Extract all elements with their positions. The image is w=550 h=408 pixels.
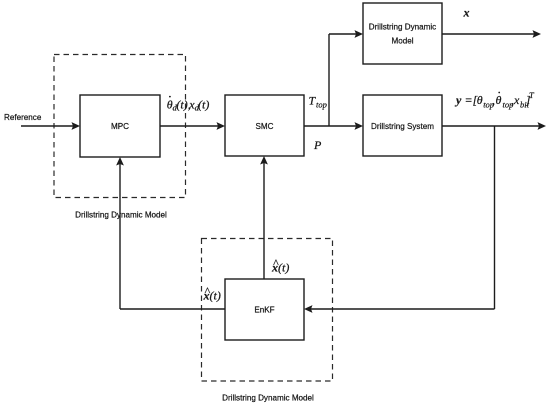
svg-text:Reference: Reference: [4, 113, 42, 122]
svg-text:Drillstring Dynamic: Drillstring Dynamic: [369, 23, 436, 32]
svg-text:θ: θ: [496, 93, 502, 107]
svg-text:(t): (t): [198, 97, 209, 111]
wire: Drillstring System output y: [442, 125, 540, 127]
wire: branch to Drillstring Dynamic Model: [329, 33, 357, 35]
wire: branch up from SMC output: [328, 34, 330, 126]
svg-text:=: =: [465, 93, 473, 107]
wire: feedback up to MPC bottom: [119, 163, 121, 309]
wire: EnKF top output to SMC: [263, 162, 265, 279]
block EnKF: [225, 279, 304, 340]
svg-text:x: x: [463, 6, 470, 20]
label: xhat(t) left of EnKF: [203, 284, 221, 302]
svg-text:Drillstring Dynamic Model: Drillstring Dynamic Model: [75, 211, 167, 220]
svg-text:P: P: [313, 138, 322, 152]
svg-text:MPC: MPC: [111, 122, 129, 131]
block Drillstring Dynamic Model (top right): [363, 3, 442, 64]
svg-text:(t): (t): [278, 260, 289, 274]
wire: Reference to MPC: [21, 125, 74, 127]
arrowhead into Drillstring System left: [355, 122, 364, 130]
arrowhead into EnKF right: [304, 305, 313, 313]
arrowhead into SMC left: [217, 122, 226, 130]
arrowhead into Drillstring Dynamic Model left: [355, 30, 364, 38]
dashed box (top) around MPC: [54, 55, 186, 198]
svg-text:Drillstring System: Drillstring System: [371, 122, 434, 131]
svg-text:top: top: [316, 100, 327, 110]
wire: feedback to EnKF right: [310, 308, 495, 310]
svg-text:SMC: SMC: [256, 122, 274, 131]
svg-text:y: y: [454, 93, 462, 107]
wire: MPC to SMC: [160, 125, 219, 127]
wire: EnKF left output: [120, 308, 225, 310]
label: theta_d(t), x_d(t): [167, 96, 210, 113]
svg-text:Drillstring Dynamic Model: Drillstring Dynamic Model: [222, 394, 314, 403]
label: xhat(t) above EnKF: [271, 256, 289, 274]
arrowhead into MPC bottom: [116, 157, 124, 166]
arrowhead output y: [538, 122, 547, 130]
block Drillstring System: [363, 95, 442, 156]
label: y = [theta_top, theta'_top, x_bit]^T: [454, 90, 535, 110]
block MPC: [80, 95, 160, 157]
arrowhead output x: [533, 30, 542, 38]
svg-text:EnKF: EnKF: [254, 306, 274, 315]
block SMC: [225, 95, 304, 156]
label: T_top: [309, 94, 327, 110]
svg-text:Model: Model: [391, 37, 413, 46]
wire: SMC to Drillstring System: [304, 125, 357, 127]
svg-text:θ: θ: [477, 93, 483, 107]
svg-text:(t): (t): [210, 289, 221, 303]
arrowhead into SMC bottom: [260, 156, 268, 165]
dashed box (bottom) around EnKF: [202, 239, 333, 382]
wire: Drillstring Dynamic Model output x: [442, 33, 535, 35]
wire: feedback branch down from output: [494, 126, 496, 309]
svg-text:x: x: [513, 93, 520, 107]
arrowhead into MPC left: [72, 122, 81, 130]
